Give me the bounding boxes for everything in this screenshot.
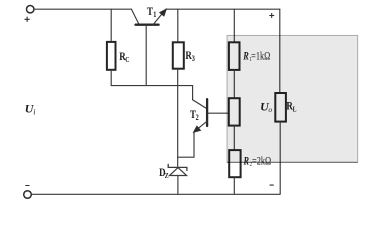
svg-text:i: i — [33, 107, 35, 116]
wire T2 base lead — [208, 112, 229, 114]
transistor T2 — [190, 86, 207, 133]
svg-text:C: C — [125, 56, 129, 64]
svg-text:1: 1 — [153, 10, 156, 19]
label - output — [270, 184, 273, 186]
wire R2 to bottom rail — [233, 177, 235, 194]
wire top rail left — [34, 8, 132, 10]
svg-text:Z: Z — [165, 172, 169, 180]
bottom rail — [31, 193, 280, 195]
wire potentiometer to R2 — [233, 126, 235, 151]
resistor R1 value 1k — [229, 42, 270, 70]
label + output — [270, 13, 274, 17]
wire T1 base lead — [145, 25, 147, 86]
svg-text:2: 2 — [196, 113, 199, 122]
label Ui — [25, 102, 36, 117]
output terminal - — [24, 186, 32, 199]
shaded region — [227, 35, 358, 162]
shaded region bottom border — [227, 161, 358, 163]
input terminal + — [25, 6, 34, 22]
resistor R3 — [173, 9, 195, 68]
load resistor RL — [275, 9, 297, 194]
wire zener anode to bottom rail — [177, 176, 179, 195]
wire top rail right — [166, 8, 280, 10]
potentiometer (divider tap) — [229, 98, 240, 125]
wire R3 to zener cathode — [177, 69, 179, 167]
resistor R2 value 2k — [229, 150, 271, 177]
svg-text:3: 3 — [192, 54, 195, 63]
svg-text:T: T — [147, 6, 153, 18]
label Uo — [260, 99, 272, 114]
wire base node horizontal — [111, 85, 192, 87]
resistor Rc — [107, 9, 130, 85]
wire T2 emitter to zener — [178, 132, 194, 158]
wire divider top lead — [233, 9, 235, 42]
wire R1 to potentiometer — [233, 70, 235, 98]
zener diode Dz — [159, 164, 187, 180]
transistor T1 — [132, 6, 167, 25]
